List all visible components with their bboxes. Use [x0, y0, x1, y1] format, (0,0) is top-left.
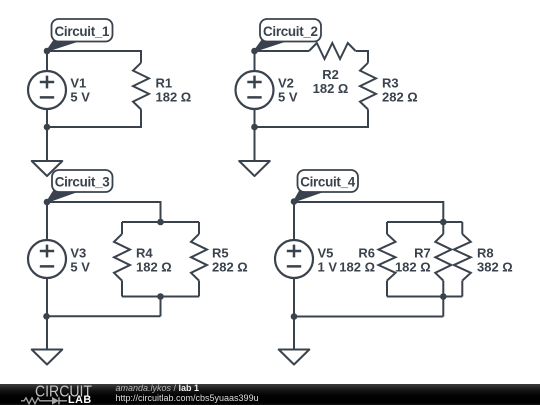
svg-text:LAB: LAB: [68, 394, 92, 405]
svg-text:182 Ω: 182 Ω: [136, 259, 172, 274]
svg-text:http://circuitlab.com/cbs5yuaa: http://circuitlab.com/cbs5yuaas399u: [116, 393, 259, 403]
svg-text:R6: R6: [358, 245, 375, 260]
svg-text:R8: R8: [477, 245, 494, 260]
svg-text:282 Ω: 282 Ω: [212, 259, 248, 274]
svg-text:V3: V3: [70, 245, 86, 260]
svg-text:182 Ω: 182 Ω: [339, 259, 375, 274]
svg-text:5 V: 5 V: [70, 89, 90, 104]
svg-text:R4: R4: [136, 245, 153, 260]
svg-text:V1: V1: [70, 75, 86, 90]
svg-text:282 Ω: 282 Ω: [382, 89, 418, 104]
svg-text:Circuit_2: Circuit_2: [263, 24, 318, 39]
svg-text:R1: R1: [156, 75, 173, 90]
svg-text:182 Ω: 182 Ω: [156, 89, 192, 104]
svg-text:Circuit_3: Circuit_3: [55, 175, 110, 190]
svg-text:R2: R2: [322, 67, 339, 82]
svg-text:V2: V2: [278, 75, 294, 90]
svg-text:V5: V5: [318, 245, 334, 260]
svg-text:182 Ω: 182 Ω: [313, 81, 349, 96]
svg-text:5 V: 5 V: [278, 89, 298, 104]
svg-text:Circuit_4: Circuit_4: [300, 175, 356, 190]
svg-text:R3: R3: [382, 75, 399, 90]
svg-text:382 Ω: 382 Ω: [477, 259, 513, 274]
svg-text:182 Ω: 182 Ω: [395, 259, 431, 274]
svg-text:5 V: 5 V: [70, 259, 90, 274]
svg-text:amanda.lykos / lab 1: amanda.lykos / lab 1: [116, 383, 200, 393]
svg-text:1 V: 1 V: [318, 259, 338, 274]
svg-text:Circuit_1: Circuit_1: [55, 24, 111, 39]
svg-text:R5: R5: [212, 245, 229, 260]
svg-text:R7: R7: [414, 245, 431, 260]
